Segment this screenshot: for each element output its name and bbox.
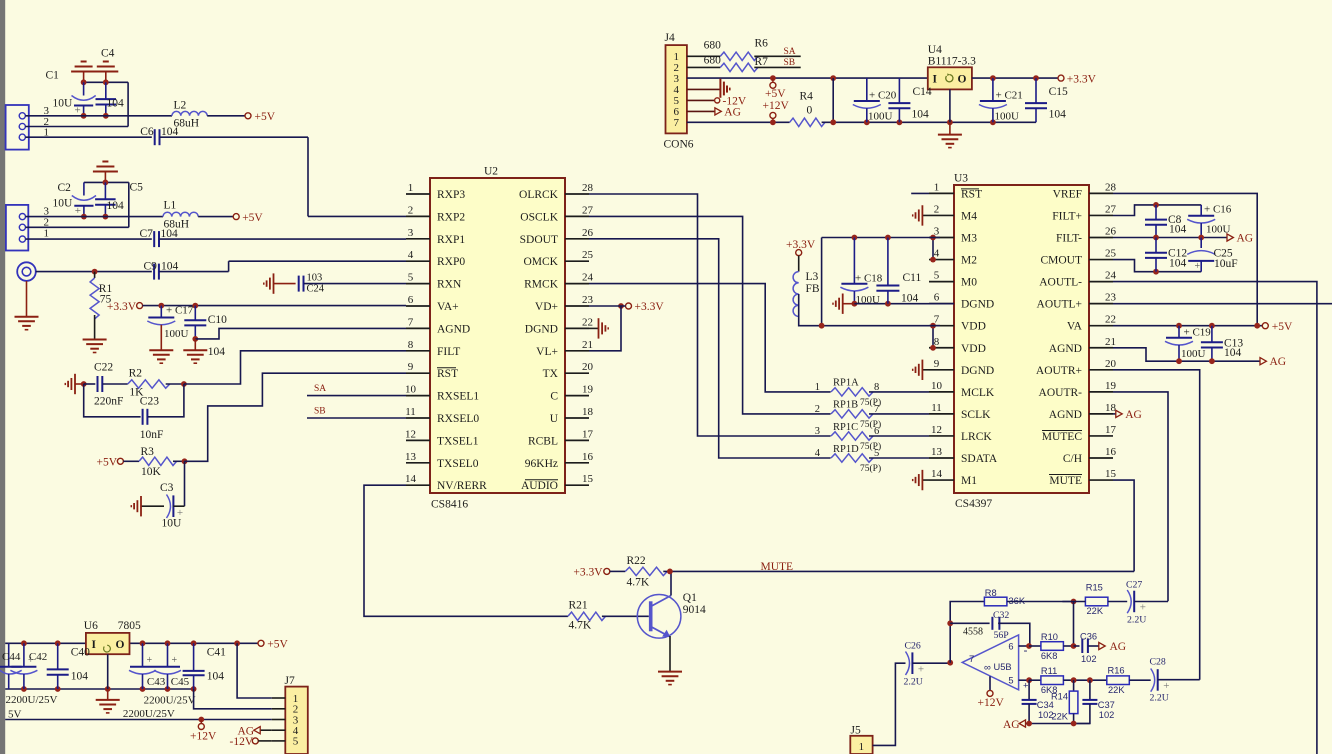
svg-text:2200U/25V: 2200U/25V (144, 695, 196, 707)
svg-text:23: 23 (582, 294, 594, 306)
svg-text:7: 7 (673, 117, 679, 129)
svg-text:M3: M3 (961, 233, 977, 245)
svg-text:1: 1 (815, 382, 820, 393)
svg-text:7805: 7805 (118, 620, 141, 632)
svg-text:RP1B: RP1B (833, 400, 858, 411)
svg-text:16: 16 (582, 451, 594, 463)
svg-text:20: 20 (582, 361, 594, 373)
svg-text:C10: C10 (208, 314, 227, 326)
svg-text:7: 7 (874, 404, 879, 415)
svg-text:L2: L2 (174, 100, 187, 112)
svg-text:OLRCK: OLRCK (519, 189, 559, 201)
svg-text:AOUTR+: AOUTR+ (1036, 365, 1082, 377)
svg-text:SA: SA (314, 384, 326, 394)
svg-text:+ C18: + C18 (855, 273, 883, 285)
svg-text:Q1: Q1 (683, 592, 697, 604)
svg-text:4.7K: 4.7K (569, 620, 592, 632)
svg-text:SA: SA (784, 47, 796, 57)
svg-text:100U: 100U (1181, 348, 1206, 360)
svg-text:J4: J4 (665, 32, 675, 44)
svg-text:19: 19 (1105, 380, 1117, 392)
svg-text:4558: 4558 (963, 627, 983, 638)
svg-text:∞: ∞ (984, 663, 991, 674)
svg-text:3: 3 (408, 227, 414, 239)
svg-text:24: 24 (582, 272, 594, 284)
svg-text:M0: M0 (961, 277, 977, 289)
svg-text:10U: 10U (162, 518, 183, 530)
svg-text:C44: C44 (2, 651, 21, 663)
svg-text:+ C16: + C16 (1204, 204, 1232, 216)
svg-text:13: 13 (931, 446, 943, 458)
svg-text:+5V: +5V (255, 111, 276, 123)
svg-text:+ C17: + C17 (166, 305, 194, 317)
svg-text:102: 102 (1099, 710, 1115, 720)
svg-text:MUTE: MUTE (761, 561, 794, 573)
svg-text:B1117-3.3: B1117-3.3 (928, 56, 976, 68)
svg-text:RXP2: RXP2 (437, 211, 465, 223)
svg-text:CON6: CON6 (664, 139, 694, 151)
svg-text:DGND: DGND (961, 299, 994, 311)
svg-text:17: 17 (582, 428, 594, 440)
svg-text:14: 14 (405, 473, 417, 485)
svg-text:L1: L1 (164, 200, 177, 212)
svg-text:104: 104 (208, 346, 226, 358)
svg-text:FILT-: FILT- (1056, 233, 1082, 245)
svg-text:2.2U: 2.2U (904, 677, 923, 688)
svg-text:R7: R7 (755, 56, 769, 68)
svg-text:18: 18 (582, 406, 594, 418)
svg-text:22: 22 (582, 316, 593, 328)
svg-text:U2: U2 (484, 166, 498, 178)
svg-text:2: 2 (934, 203, 940, 215)
svg-text:25: 25 (582, 249, 594, 261)
svg-text:10: 10 (931, 380, 943, 392)
svg-text:RXP3: RXP3 (437, 189, 465, 201)
svg-text:+3.3V: +3.3V (107, 301, 137, 313)
svg-text:R6: R6 (755, 38, 769, 50)
svg-text:FB: FB (806, 283, 820, 295)
svg-text:+: + (28, 655, 34, 666)
svg-text:5: 5 (934, 270, 940, 282)
svg-text:M1: M1 (961, 475, 977, 487)
svg-text:16: 16 (1105, 446, 1117, 458)
svg-text:+: + (1163, 680, 1169, 692)
svg-text:OMCK: OMCK (523, 256, 558, 268)
svg-text:C23: C23 (140, 396, 159, 408)
svg-text:2200U/25V: 2200U/25V (6, 694, 58, 706)
svg-text:+5V: +5V (1272, 321, 1293, 333)
svg-text:VDD: VDD (961, 321, 986, 333)
svg-text:12: 12 (405, 428, 416, 440)
svg-text:+3.3V: +3.3V (573, 567, 603, 579)
svg-text:+5V: +5V (96, 457, 117, 469)
svg-text:MUTE: MUTE (1049, 475, 1082, 487)
svg-text:104: 104 (1049, 109, 1067, 121)
svg-text:FILT+: FILT+ (1052, 210, 1082, 222)
svg-text:NV/RERR: NV/RERR (437, 480, 487, 492)
svg-text:21: 21 (582, 339, 593, 351)
svg-text:C4: C4 (101, 48, 115, 60)
svg-text:R2: R2 (129, 368, 143, 380)
svg-text:DGND: DGND (961, 365, 994, 377)
svg-text:LRCK: LRCK (961, 431, 992, 443)
svg-text:1: 1 (408, 182, 414, 194)
svg-text:4: 4 (408, 249, 414, 261)
svg-text:+5V: +5V (242, 212, 263, 224)
svg-text:+: + (172, 655, 178, 666)
svg-text:2.2U: 2.2U (1127, 615, 1146, 626)
svg-text:RP1D: RP1D (833, 444, 859, 455)
svg-text:10K: 10K (141, 466, 162, 478)
svg-text:10U: 10U (53, 98, 74, 110)
svg-text:C7: C7 (140, 228, 154, 240)
svg-text:R4: R4 (800, 91, 814, 103)
svg-text:C/H: C/H (1063, 453, 1082, 465)
svg-text:R8: R8 (985, 588, 997, 598)
svg-text:5: 5 (874, 448, 879, 459)
svg-text:3: 3 (815, 426, 820, 437)
svg-text:104: 104 (912, 109, 930, 121)
svg-text:104: 104 (901, 293, 919, 305)
svg-text:SB: SB (784, 58, 796, 68)
svg-text:+12V: +12V (190, 731, 217, 743)
svg-text:RXN: RXN (437, 279, 462, 291)
svg-text:C2: C2 (58, 182, 72, 194)
svg-text:26: 26 (1105, 226, 1117, 238)
svg-text:10uF: 10uF (1214, 258, 1238, 270)
svg-text:TXSEL1: TXSEL1 (437, 435, 479, 447)
svg-text:C32: C32 (993, 610, 1009, 621)
svg-text:5: 5 (293, 736, 299, 748)
svg-text:O: O (116, 639, 125, 651)
svg-text:100U: 100U (868, 111, 893, 123)
svg-text:AG: AG (1270, 356, 1287, 368)
svg-text:25: 25 (1105, 248, 1117, 260)
svg-text:+3.3V: +3.3V (786, 239, 816, 251)
svg-text:R3: R3 (141, 446, 155, 458)
svg-text:8: 8 (874, 382, 879, 393)
svg-text:1: 1 (934, 181, 940, 193)
svg-text:19: 19 (582, 384, 594, 396)
svg-text:U: U (550, 413, 559, 425)
svg-text:+5V: +5V (765, 88, 786, 100)
svg-text:VA: VA (1067, 321, 1083, 333)
svg-text:10U: 10U (53, 198, 74, 210)
svg-text:C5: C5 (130, 182, 144, 194)
svg-text:C43: C43 (147, 676, 166, 688)
svg-text:CS4397: CS4397 (955, 498, 992, 510)
svg-text:6: 6 (874, 426, 879, 437)
svg-text:12: 12 (931, 424, 942, 436)
svg-text:C1: C1 (46, 70, 60, 82)
svg-text:C11: C11 (903, 272, 922, 284)
svg-text:AG: AG (1237, 233, 1254, 245)
svg-text:+ C20: + C20 (869, 90, 897, 102)
svg-text:22K: 22K (1051, 712, 1068, 722)
svg-text:OSCLK: OSCLK (520, 211, 558, 223)
svg-text:VL+: VL+ (536, 346, 558, 358)
svg-text:100U: 100U (995, 111, 1020, 123)
svg-text:SDOUT: SDOUT (520, 234, 558, 246)
svg-text:AGND: AGND (1049, 343, 1082, 355)
svg-text:R14: R14 (1051, 692, 1068, 702)
svg-text:U6: U6 (84, 620, 98, 632)
svg-text:1: 1 (859, 741, 865, 753)
svg-text:AOUTL+: AOUTL+ (1037, 299, 1082, 311)
svg-text:C40: C40 (71, 646, 90, 658)
svg-text:AGND: AGND (1049, 409, 1082, 421)
svg-text:102: 102 (1081, 654, 1097, 664)
svg-text:+: + (1195, 261, 1201, 272)
svg-text:14: 14 (931, 468, 943, 480)
svg-text:C24: C24 (307, 284, 325, 295)
svg-text:I: I (933, 73, 938, 85)
svg-text:RST: RST (961, 188, 982, 200)
svg-text:28: 28 (582, 182, 594, 194)
svg-text:C9: C9 (144, 261, 158, 273)
svg-text:8: 8 (408, 339, 414, 351)
svg-text:SCLK: SCLK (961, 409, 991, 421)
svg-text:R16: R16 (1108, 666, 1125, 676)
svg-text:AGND: AGND (437, 323, 470, 335)
svg-text:TXSEL0: TXSEL0 (437, 458, 479, 470)
svg-text:RST: RST (437, 368, 458, 380)
svg-text:0: 0 (807, 105, 813, 117)
svg-text:1: 1 (44, 227, 50, 239)
svg-text:FILT: FILT (437, 346, 460, 358)
svg-text:96KHz: 96KHz (525, 458, 558, 470)
svg-text:RMCK: RMCK (524, 279, 559, 291)
svg-text:104: 104 (161, 261, 179, 273)
svg-text:RXSEL0: RXSEL0 (437, 413, 479, 425)
svg-text:AUDIO: AUDIO (521, 480, 558, 492)
svg-text:+: + (147, 655, 153, 666)
svg-text:220nF: 220nF (94, 396, 123, 408)
svg-text:+3.3V: +3.3V (635, 301, 665, 313)
svg-text:104: 104 (1169, 258, 1187, 270)
svg-text:103: 103 (307, 273, 323, 284)
svg-text:+ C21: + C21 (996, 90, 1023, 102)
svg-text:11: 11 (931, 402, 942, 414)
svg-text:15: 15 (1105, 468, 1117, 480)
svg-text:VA+: VA+ (437, 301, 459, 313)
svg-text:22: 22 (1105, 314, 1116, 326)
svg-text:SB: SB (314, 407, 326, 417)
svg-text:RP1A: RP1A (833, 378, 859, 389)
svg-text:2: 2 (815, 404, 820, 415)
svg-text:24: 24 (1105, 270, 1117, 282)
svg-text:27: 27 (1105, 203, 1117, 215)
svg-text:104: 104 (207, 671, 225, 683)
svg-text:C36: C36 (1080, 631, 1097, 641)
svg-text:AOUTR-: AOUTR- (1039, 387, 1083, 399)
svg-text:VREF: VREF (1053, 188, 1082, 200)
svg-text:+5V: +5V (267, 639, 288, 651)
svg-text:10nF: 10nF (140, 429, 164, 441)
svg-text:+: + (1140, 602, 1146, 614)
svg-text:104: 104 (1224, 347, 1242, 359)
svg-text:9014: 9014 (683, 604, 706, 616)
svg-text:22K: 22K (1087, 606, 1104, 616)
svg-text:U3: U3 (954, 173, 968, 185)
svg-text:RXP0: RXP0 (437, 256, 465, 268)
svg-text:28: 28 (1105, 181, 1117, 193)
svg-text:AOUTL-: AOUTL- (1039, 277, 1082, 289)
svg-text:18: 18 (1105, 402, 1117, 414)
svg-text:C: C (550, 391, 558, 403)
svg-text:100U: 100U (164, 328, 189, 340)
svg-text:104: 104 (71, 671, 89, 683)
svg-text:MUTEC: MUTEC (1042, 431, 1083, 443)
svg-text:CMOUT: CMOUT (1040, 255, 1082, 267)
svg-text:R10: R10 (1041, 632, 1058, 642)
svg-text:9: 9 (408, 361, 414, 373)
svg-text:+3.3V: +3.3V (1067, 73, 1097, 85)
svg-text:RXSEL1: RXSEL1 (437, 391, 479, 403)
svg-text:R15: R15 (1086, 583, 1103, 593)
svg-text:9: 9 (934, 358, 940, 370)
svg-text:VD+: VD+ (535, 301, 558, 313)
svg-text:6: 6 (1008, 642, 1013, 652)
svg-text:C15: C15 (1049, 86, 1068, 98)
svg-text:DGND: DGND (525, 323, 558, 335)
svg-text:6: 6 (408, 294, 414, 306)
svg-text:6K8: 6K8 (1041, 651, 1058, 661)
svg-text:13: 13 (405, 451, 417, 463)
svg-text:26: 26 (582, 227, 594, 239)
svg-text:C22: C22 (94, 362, 113, 374)
svg-text:27: 27 (582, 204, 594, 216)
svg-text:U5B: U5B (994, 662, 1012, 672)
svg-text:20: 20 (1105, 358, 1117, 370)
svg-text:C6: C6 (140, 126, 154, 138)
svg-text:AG: AG (1110, 641, 1127, 653)
svg-text:M2: M2 (961, 255, 977, 267)
svg-text:680: 680 (704, 40, 722, 52)
svg-text:L3: L3 (806, 271, 819, 283)
svg-text:CS8416: CS8416 (431, 499, 468, 511)
svg-text:SDATA: SDATA (961, 453, 998, 465)
svg-text:I: I (92, 639, 97, 651)
svg-text:2200U/25V: 2200U/25V (123, 708, 175, 720)
svg-text:+: + (918, 664, 924, 676)
svg-text:68uH: 68uH (164, 219, 190, 231)
svg-text:C14: C14 (913, 86, 932, 98)
svg-text:23: 23 (1105, 292, 1117, 304)
svg-text:6: 6 (934, 292, 940, 304)
svg-text:4: 4 (815, 448, 821, 459)
svg-text:+: + (75, 205, 81, 217)
svg-text:7: 7 (969, 654, 974, 665)
svg-text:J5: J5 (851, 725, 861, 737)
svg-text:U4: U4 (928, 44, 942, 56)
svg-text:C45: C45 (171, 676, 190, 688)
svg-text:11: 11 (405, 406, 416, 418)
svg-text:RXP1: RXP1 (437, 234, 465, 246)
svg-text:22K: 22K (1108, 685, 1125, 695)
svg-text:7: 7 (408, 316, 414, 328)
svg-text:RCBL: RCBL (528, 435, 558, 447)
svg-text:+: + (75, 105, 81, 117)
svg-text:R21: R21 (569, 600, 588, 612)
svg-text:56P: 56P (994, 630, 1010, 641)
svg-text:4.7K: 4.7K (627, 577, 650, 589)
svg-text:RP1C: RP1C (833, 422, 858, 433)
svg-text:75(P): 75(P) (860, 463, 881, 474)
svg-text:AG: AG (1003, 719, 1020, 731)
svg-text:10: 10 (405, 384, 417, 396)
svg-text:15: 15 (582, 473, 594, 485)
svg-text:C37: C37 (1098, 700, 1115, 710)
svg-text:+ C19: + C19 (1184, 326, 1212, 338)
svg-text:+12V: +12V (763, 100, 790, 112)
svg-text:-12V: -12V (230, 736, 254, 748)
svg-text:C28: C28 (1150, 657, 1166, 668)
svg-text:21: 21 (1105, 336, 1116, 348)
svg-text:AG: AG (1125, 409, 1142, 421)
svg-text:2: 2 (408, 204, 414, 216)
svg-text:C3: C3 (160, 482, 174, 494)
svg-text:AG: AG (724, 106, 741, 118)
svg-text:VDD: VDD (961, 343, 986, 355)
svg-text:104: 104 (107, 200, 125, 212)
svg-text:O: O (958, 73, 967, 85)
svg-text:17: 17 (1105, 424, 1117, 436)
svg-text:C41: C41 (207, 647, 226, 659)
svg-text:5: 5 (408, 272, 414, 284)
svg-text:R22: R22 (627, 555, 646, 567)
svg-text:104: 104 (107, 98, 125, 110)
svg-text:TX: TX (543, 368, 559, 380)
svg-text:68uH: 68uH (174, 118, 200, 130)
svg-text:R11: R11 (1041, 666, 1057, 676)
svg-text:J7: J7 (285, 675, 295, 687)
svg-text:+: + (177, 507, 183, 519)
svg-text:C27: C27 (1126, 580, 1142, 591)
svg-text:MCLK: MCLK (961, 387, 995, 399)
svg-text:+12V: +12V (978, 697, 1005, 709)
svg-text:M4: M4 (961, 210, 977, 222)
svg-text:5: 5 (1008, 676, 1013, 686)
svg-text:C26: C26 (905, 641, 921, 652)
svg-text:680: 680 (704, 55, 722, 67)
svg-text:2.2U: 2.2U (1150, 693, 1169, 704)
svg-text:104: 104 (1169, 224, 1187, 236)
